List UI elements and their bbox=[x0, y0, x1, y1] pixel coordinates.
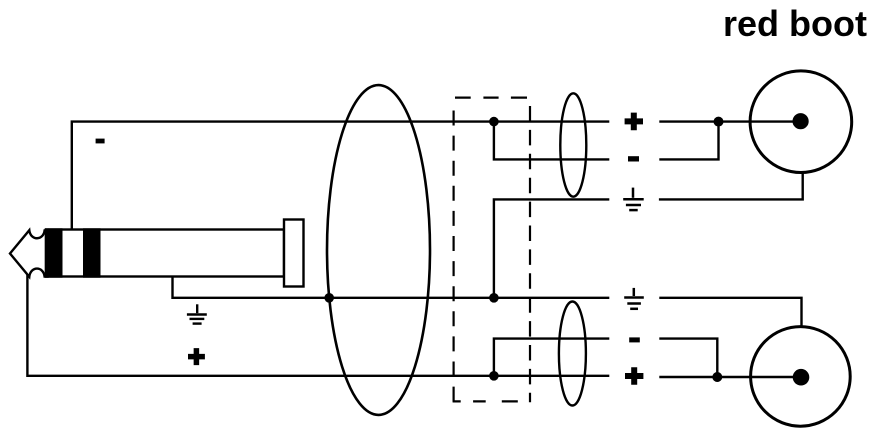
svg-text:red boot: red boot bbox=[723, 3, 867, 44]
